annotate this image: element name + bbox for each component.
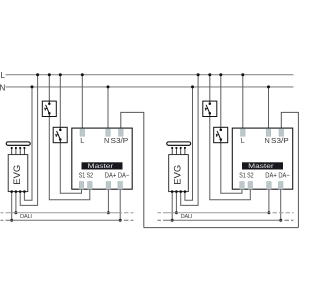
junction L bus / EVG1: [36, 73, 39, 76]
EVG1 bottom terminal 3 junction: [19, 190, 22, 193]
U2 bottom terminal S1: [240, 182, 245, 190]
U2 top terminal S3/P: [279, 129, 284, 137]
mains bus L: [6, 74, 294, 76]
junction L bus / U2 L: [241, 73, 244, 76]
wire U2 DA- to DALI lower line: [280, 189, 282, 220]
EVG2 lamp pin 3: [180, 148, 182, 155]
DALI master dimmer U2 box: [232, 128, 292, 189]
junction DA- / DALI lower: [279, 219, 282, 222]
U2 top terminal L: [241, 129, 246, 137]
junction L bus / pushbutton S3: [208, 73, 211, 76]
DALI bus lower line (right segment): [158, 219, 294, 221]
wire L bus through pushbutton S2 to master S1 terminal: [60, 75, 81, 194]
wire N bus to EVG2 pin4: [185, 87, 193, 200]
EVG1 lamp pin 4: [23, 148, 25, 155]
EVG1 bottom terminal 1 junction: [10, 190, 13, 193]
U1 bottom terminal DA-: [118, 182, 123, 190]
U2 bottom terminal S2: [248, 182, 253, 190]
svg-text:DA+ DA−: DA+ DA−: [265, 171, 290, 180]
svg-text:S1 S2: S1 S2: [239, 171, 253, 180]
EVG2 bottom terminal 3 junction: [179, 190, 182, 193]
svg-text:DALI: DALI: [181, 214, 193, 220]
fluorescent lamp above EVG1: [6, 142, 30, 145]
svg-text:N: N: [264, 136, 269, 145]
EVG2 lamp pin 4: [184, 148, 186, 155]
extension line joining S3/P terminals: [144, 227, 299, 229]
pushbutton S1 box: [42, 101, 56, 116]
svg-text:DALI: DALI: [20, 214, 32, 220]
svg-text:Master: Master: [248, 163, 275, 170]
svg-text:L: L: [1, 71, 6, 80]
svg-text:S3/P: S3/P: [111, 136, 129, 145]
pushbutton S2 box: [53, 127, 67, 142]
U1 bottom terminal S2: [88, 182, 93, 190]
pushbutton S2 symbol: [56, 127, 62, 142]
svg-text:L: L: [80, 136, 84, 145]
pushbutton S4 symbol: [216, 127, 222, 142]
junction DA- / DALI lower: [119, 219, 122, 222]
svg-text:S1 S2: S1 S2: [79, 171, 93, 180]
U1 bottom terminal DA+: [106, 182, 111, 190]
EVG2 bottom terminal 2 junction: [175, 190, 178, 193]
EVG1 lamp pin 3: [19, 148, 21, 155]
DALI bus upper line (right segment): [158, 212, 294, 214]
DALI master dimmer U1 box: [72, 128, 132, 189]
U1 Master label bar: [82, 162, 123, 169]
wire L bus to EVG1 pin3: [20, 75, 37, 206]
EVG2 bottom terminal 1 junction: [171, 190, 174, 193]
svg-text:L: L: [241, 136, 245, 145]
U1 top terminal L: [80, 129, 85, 137]
DALI bus upper line (left segment): [1, 212, 123, 214]
svg-text:EVG: EVG: [172, 165, 182, 185]
EVG1 lamp pin 1: [11, 148, 13, 155]
U1 top terminal N: [106, 129, 111, 137]
U2 bottom terminal DA+: [267, 182, 272, 190]
EVG2 lamp pin 2: [175, 148, 177, 155]
EVG1 bottom terminal 2 junction: [15, 190, 18, 193]
junction L bus / EVG2: [197, 73, 200, 76]
U2 top terminal N: [266, 129, 271, 137]
svg-text:S3/P: S3/P: [271, 136, 289, 145]
wire L bus to EVG2 pin3: [181, 75, 198, 206]
junction N bus / EVG2: [191, 85, 194, 88]
wire U1 DA+ to DALI upper line: [107, 189, 109, 213]
DALI bus lower line (left segment): [1, 219, 123, 221]
pushbutton S1 symbol: [45, 101, 51, 116]
junction N bus / U1 N: [107, 85, 110, 88]
ballast EVG2 box: [169, 155, 189, 192]
junction L bus / pushbutton S4: [219, 73, 222, 76]
wire U1 DA- to DALI lower line: [119, 189, 121, 220]
junction EVG2 pin2 / DALI upper: [175, 211, 178, 214]
wire L bus to master U1 terminal L: [81, 75, 83, 131]
EVG2 bottom terminal 4 junction: [184, 190, 187, 193]
wire U1 terminal S3/P up and over to extension line: [121, 112, 144, 227]
junction EVG2 pin1 / DALI lower: [171, 219, 174, 222]
EVG1 lamp pin 2: [15, 148, 17, 155]
wire U2 DA+ to DALI upper line: [268, 189, 270, 213]
ballast EVG1 box: [8, 155, 28, 192]
wire L bus through pushbutton S4 to master S1 terminal: [221, 75, 242, 194]
wire L bus through pushbutton S1 to master S2 terminal: [49, 75, 90, 200]
junction L bus / pushbutton S2: [59, 73, 62, 76]
EVG1 bottom terminal 4 junction: [23, 190, 26, 193]
U1 bottom terminal S1: [79, 182, 84, 190]
mains bus N: [6, 86, 294, 88]
U1 top terminal S3/P: [119, 129, 124, 137]
EVG2 lamp pin 1: [171, 148, 173, 155]
junction EVG1 pin2 / DALI upper: [14, 211, 17, 214]
wire N bus to master U1 terminal N: [107, 87, 109, 131]
wire L bus to master U2 terminal L: [242, 75, 244, 131]
junction L bus / pushbutton S1: [48, 73, 51, 76]
junction DA+ / DALI upper: [267, 211, 270, 214]
wire U2 terminal S3/P up and over to extension line: [281, 112, 298, 227]
wire EVG1 pin1 to DALI lower line: [11, 192, 13, 221]
junction N bus / EVG1: [31, 85, 34, 88]
junction DA+ / DALI upper: [107, 211, 110, 214]
svg-text:N: N: [0, 83, 6, 92]
wire EVG1 pin2 to DALI upper line: [15, 192, 17, 213]
wire EVG2 pin2 to DALI upper line: [175, 192, 177, 213]
pushbutton S3 symbol: [205, 101, 211, 116]
svg-text:EVG: EVG: [12, 165, 22, 185]
wire N bus to master U2 terminal N: [268, 87, 270, 131]
wire N bus to EVG1 pin4: [24, 87, 32, 200]
U2 bottom terminal DA-: [278, 182, 283, 190]
pushbutton S4 box: [214, 127, 228, 142]
U2 Master label bar: [242, 162, 283, 169]
wire L bus through pushbutton S3 to master S2 terminal: [210, 75, 251, 200]
junction L bus / U1 L: [81, 73, 84, 76]
svg-text:N: N: [104, 136, 109, 145]
junction EVG1 pin1 / DALI lower: [10, 219, 13, 222]
svg-text:Master: Master: [88, 163, 115, 170]
fluorescent lamp above EVG2: [167, 142, 191, 145]
svg-text:DA+ DA−: DA+ DA−: [105, 171, 130, 180]
wire EVG2 pin1 to DALI lower line: [171, 192, 173, 221]
junction N bus / U2 N: [267, 85, 270, 88]
pushbutton S3 box: [203, 101, 217, 116]
